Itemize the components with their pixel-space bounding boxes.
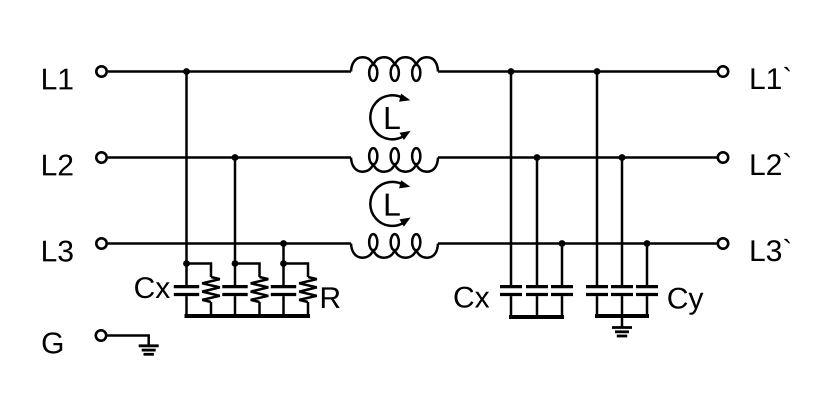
inductor coil L3: [351, 234, 438, 258]
wire L2 right segment: [438, 156, 717, 159]
junction dot L2/branch: [232, 154, 239, 161]
Cy bottom bar: [597, 314, 647, 318]
wire Cy1 from L1: [596, 72, 599, 286]
junction dot L3/branch: [280, 240, 287, 247]
ground symbol under Cy: [612, 328, 632, 337]
label R: [322, 287, 340, 308]
label L2`: [752, 153, 791, 175]
label L2: [43, 155, 72, 176]
resistor R3: [284, 264, 317, 317]
right Cx bottom bar: [511, 315, 562, 319]
wire Cx3 right from L3: [561, 244, 564, 286]
label Cx (left group): [135, 277, 170, 298]
label L1: [43, 69, 72, 90]
capacitor Cy2: [611, 287, 633, 316]
coupled-inductor symbol L (bottom): [370, 180, 410, 226]
label G: [43, 332, 63, 353]
terminal L3 left: [96, 238, 106, 248]
wire G to ground: [108, 336, 149, 345]
node dot RC branch 2: [232, 260, 239, 267]
coupled-inductor symbol L (top): [370, 94, 410, 140]
inductor coil L2: [351, 148, 438, 172]
wire L3 right segment: [438, 242, 717, 245]
terminal L1 left: [96, 66, 106, 76]
wire L1 right segment: [438, 70, 717, 73]
terminal L1` right: [718, 66, 728, 76]
capacitor Cx2 (right): [526, 287, 548, 317]
wire L3 left segment: [108, 242, 351, 245]
terminal L3` right: [718, 238, 728, 248]
label L3`: [752, 239, 791, 261]
node dot RC branch 3: [280, 260, 287, 267]
junction dot L3/Cy3: [644, 240, 651, 247]
wire L2 left segment: [108, 156, 351, 159]
wire Cx1 right from L1: [510, 72, 513, 286]
wire from L2 down to left RC network: [234, 158, 237, 264]
capacitor Cx3 (right): [551, 287, 573, 317]
node dot RC branch 1: [183, 260, 190, 267]
label Cy: [668, 288, 703, 315]
junction dot L2/Cy2: [619, 154, 626, 161]
resistor R1: [187, 264, 220, 317]
junction dot L1/branch: [183, 68, 190, 75]
capacitor Cx1 (left): [174, 264, 199, 317]
capacitor Cx3 (left): [271, 264, 296, 317]
left network bottom bar: [187, 314, 309, 318]
capacitor Cy1: [586, 287, 608, 316]
capacitor Cx2 (left): [222, 264, 247, 317]
ground symbol at G: [139, 346, 159, 355]
terminal L2` right: [718, 152, 728, 162]
capacitor Cx1 (right): [500, 287, 522, 317]
wire Cy bar to ground: [621, 316, 624, 327]
terminal G: [96, 330, 106, 340]
label L1`: [752, 67, 791, 89]
wire Cx2 right from L2: [536, 158, 539, 286]
wire from L1 down to left RC network: [185, 72, 188, 264]
label L3: [43, 241, 73, 262]
junction dot L1/Cy1: [594, 68, 601, 75]
junction dot L3/Cx3: [559, 240, 566, 247]
label Cx (right group): [455, 287, 490, 308]
wire from L3 down to left RC network: [282, 244, 285, 264]
wire Cy2 from L2: [621, 158, 624, 286]
wire Cy3 from L3: [646, 244, 649, 286]
terminal L2 left: [96, 152, 106, 162]
junction dot L1/Cx1: [508, 68, 515, 75]
junction dot L2/Cx2: [534, 154, 541, 161]
inductor coil L1: [351, 57, 438, 81]
resistor R2: [235, 264, 268, 317]
wire L1 left segment: [108, 70, 351, 73]
capacitor Cy3: [636, 287, 658, 316]
